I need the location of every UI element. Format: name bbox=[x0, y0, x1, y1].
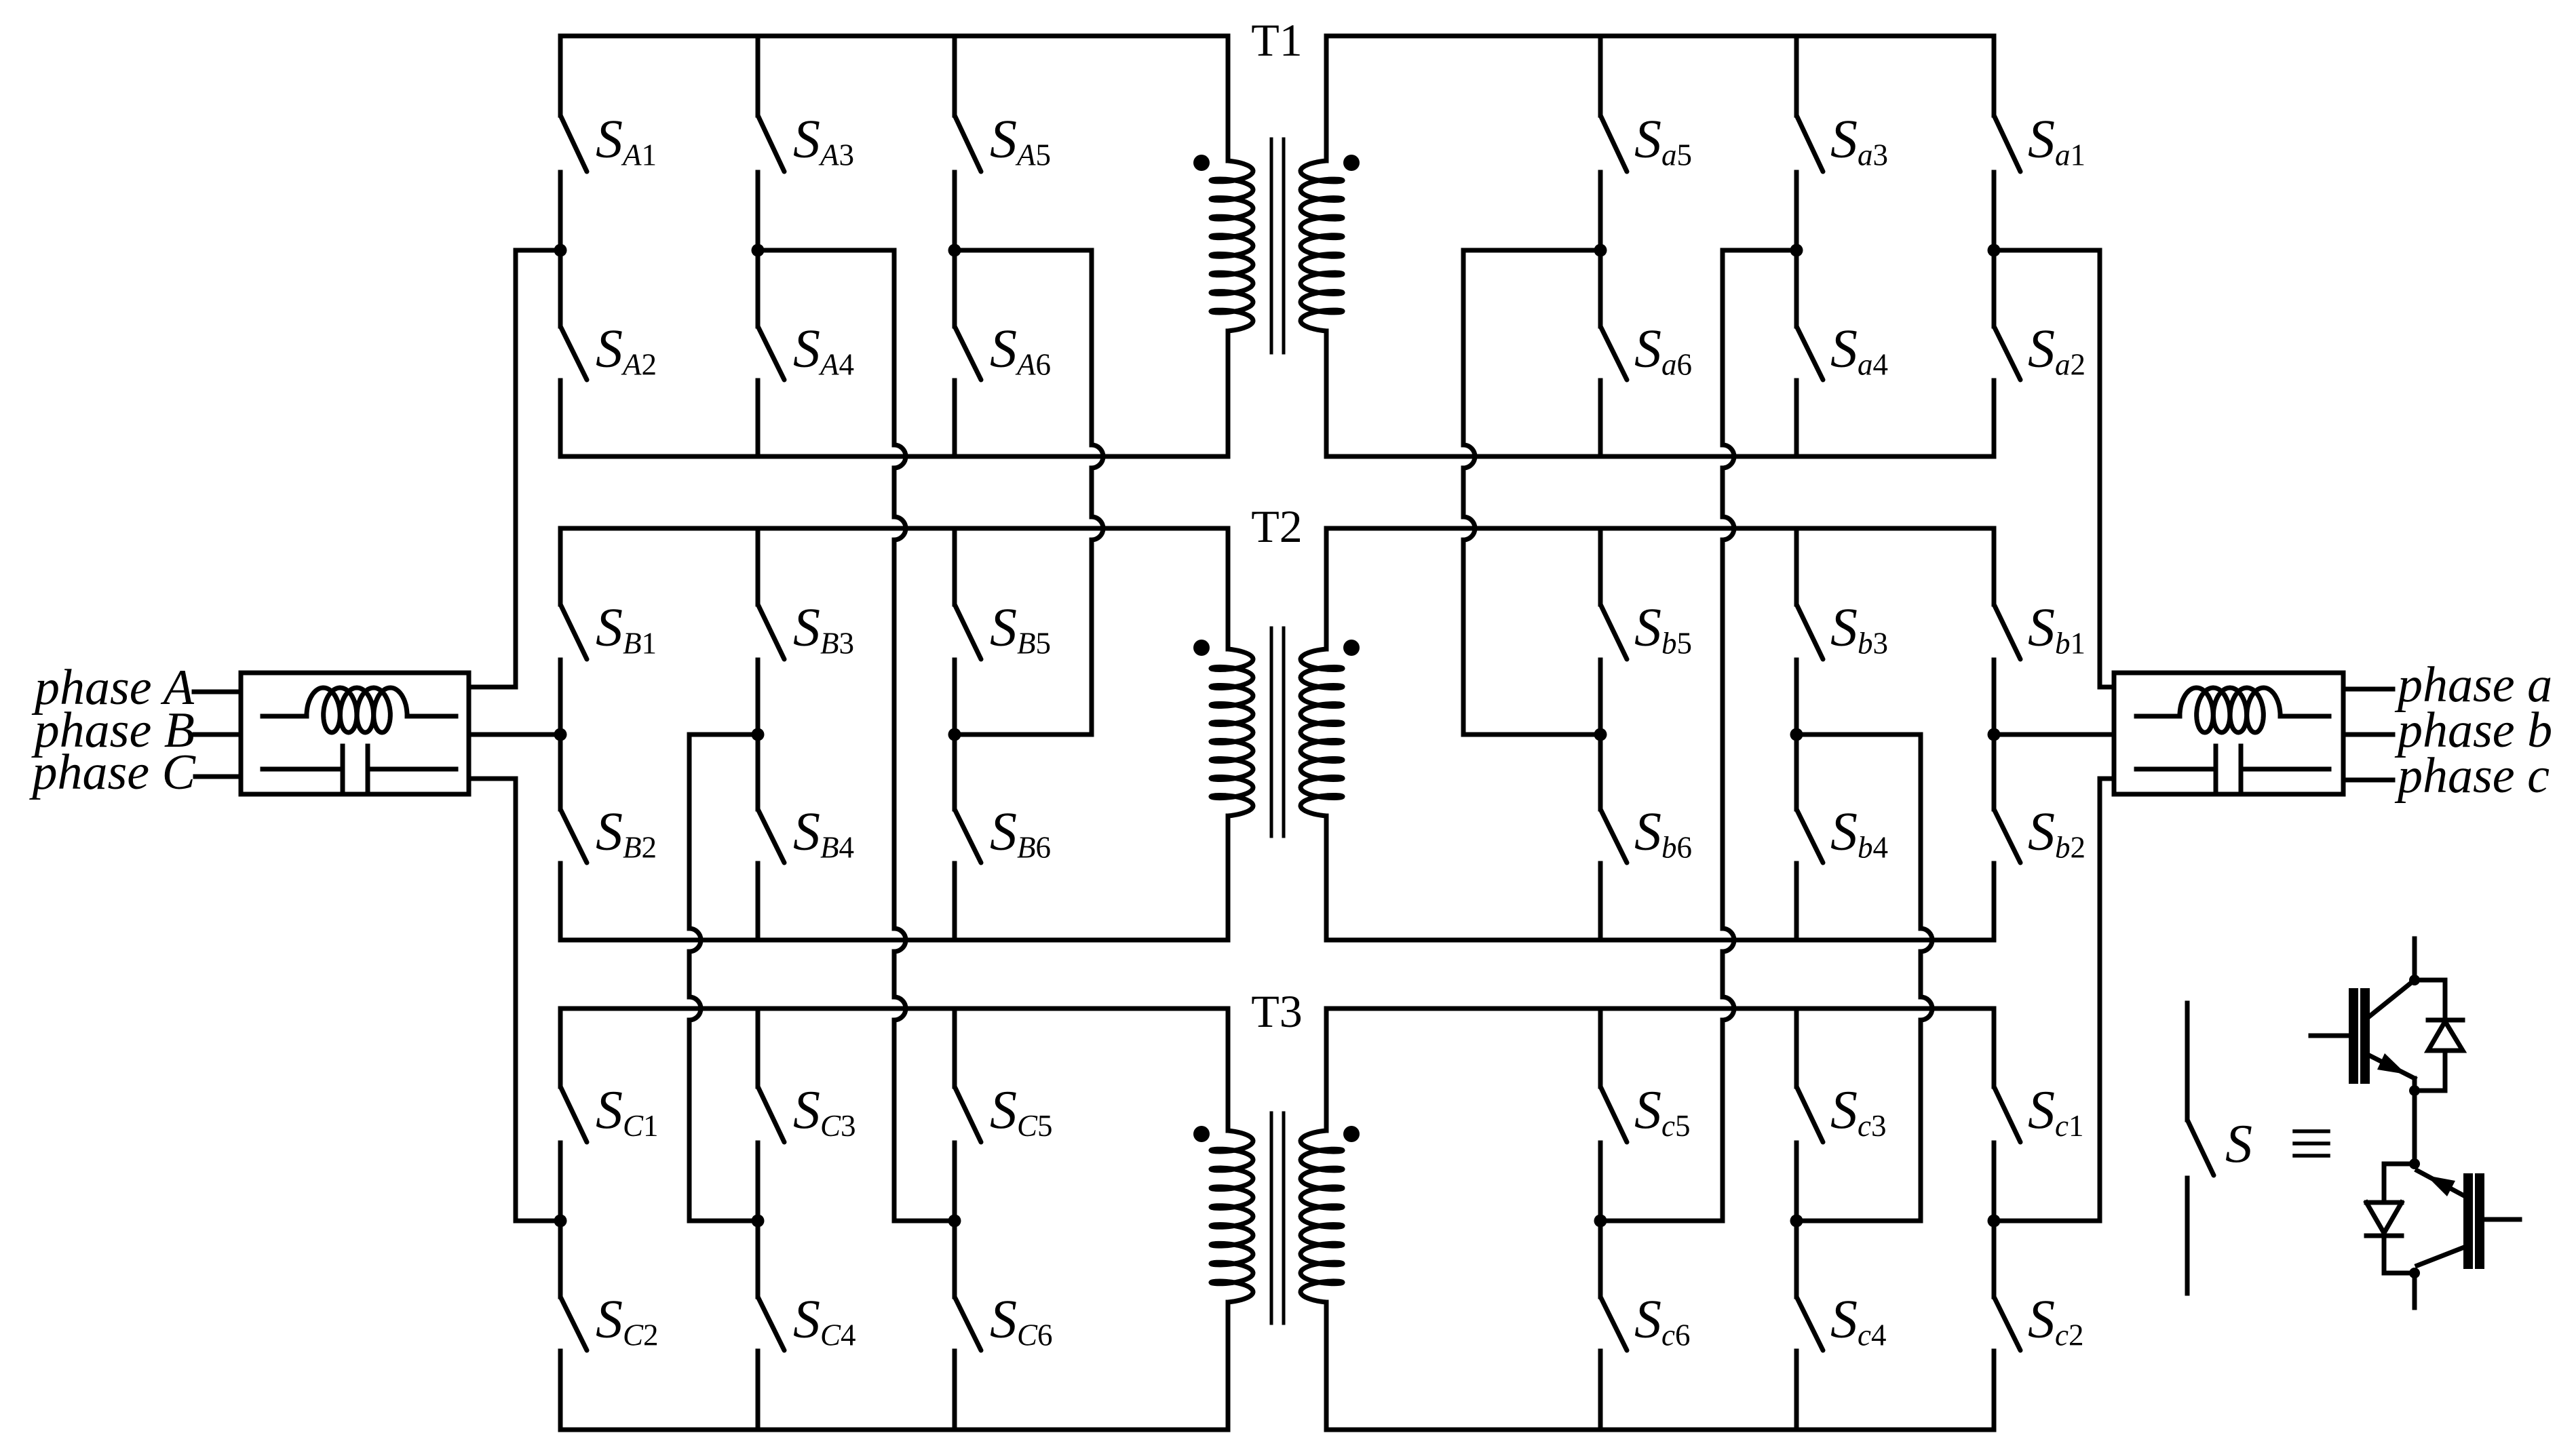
svg-text:Sc1: Sc1 bbox=[2028, 1080, 2083, 1143]
switch S_A2 bbox=[558, 250, 563, 326]
transformer T3 secondary polarity dot bbox=[1343, 1126, 1360, 1142]
svg-text:SA2: SA2 bbox=[596, 319, 657, 382]
node C-leg3 bbox=[948, 1215, 961, 1228]
wire phase a stub bbox=[2343, 687, 2393, 692]
wire bus b2-c2 bbox=[1796, 732, 1921, 737]
svg-text:SC4: SC4 bbox=[793, 1290, 856, 1352]
svg-text:Sc3: Sc3 bbox=[1830, 1080, 1886, 1143]
transformer T1 secondary winding bbox=[1324, 36, 1329, 161]
svg-text:SB4: SB4 bbox=[793, 802, 854, 865]
transistor Q2 (lower IGBT) bbox=[2463, 1178, 2473, 1264]
transformer T1 primary polarity dot bbox=[1193, 155, 1210, 171]
node A-leg2 bbox=[752, 244, 765, 257]
node b-leg1 bbox=[1988, 728, 2001, 741]
switch S_C6 bbox=[953, 1221, 957, 1297]
svg-text:Sa2: Sa2 bbox=[2028, 319, 2085, 382]
switch S_C2 bbox=[558, 1221, 563, 1297]
svg-text:Sc6: Sc6 bbox=[1634, 1290, 1690, 1352]
switch S_a3 bbox=[1794, 36, 1799, 115]
svg-text:Sb2: Sb2 bbox=[2028, 802, 2085, 865]
wire phase B link bbox=[469, 732, 560, 737]
svg-text:SC3: SC3 bbox=[793, 1080, 856, 1143]
wire C top rail left bbox=[560, 1006, 1228, 1011]
node C-leg2 bbox=[752, 1215, 765, 1228]
svg-text:SA1: SA1 bbox=[596, 110, 657, 172]
switch S_a6 bbox=[1598, 250, 1603, 326]
Q1 emitter arrow bbox=[2377, 1053, 2406, 1074]
node A-leg3 bbox=[948, 244, 961, 257]
switch S_C5 bbox=[953, 1009, 957, 1087]
svg-text:Sb3: Sb3 bbox=[1830, 598, 1888, 661]
wire bottom rail left bbox=[560, 1428, 1228, 1432]
svg-text:Sb4: Sb4 bbox=[1830, 802, 1888, 865]
wire b top rail right bbox=[1326, 526, 1994, 531]
svg-text:T1: T1 bbox=[1251, 14, 1303, 66]
svg-text:phase c: phase c bbox=[2394, 748, 2550, 804]
svg-text:Sc2: Sc2 bbox=[2028, 1290, 2083, 1352]
switch S_c2 bbox=[1992, 1221, 1997, 1297]
switch S_A1 bbox=[558, 36, 563, 115]
svg-text:Sb6: Sb6 bbox=[1634, 802, 1692, 865]
transformer T1 primary winding bbox=[1226, 36, 1231, 161]
wire phase A bus bbox=[516, 248, 560, 253]
svg-text:T3: T3 bbox=[1251, 985, 1303, 1037]
node a-leg1 bbox=[1988, 244, 2001, 257]
svg-text:Sc4: Sc4 bbox=[1830, 1290, 1886, 1352]
svg-text:SC6: SC6 bbox=[990, 1290, 1053, 1352]
svg-text:SA5: SA5 bbox=[990, 110, 1051, 172]
svg-text:Sc5: Sc5 bbox=[1634, 1080, 1690, 1143]
legend top lead bbox=[2412, 939, 2417, 980]
input filter box bbox=[241, 673, 469, 794]
node B-leg2 bbox=[752, 728, 765, 741]
output filter box bbox=[2114, 673, 2343, 794]
svg-text:SB6: SB6 bbox=[990, 802, 1051, 865]
svg-text:phase C: phase C bbox=[29, 745, 197, 800]
transformer T3 core bbox=[1270, 1113, 1273, 1323]
switch S_b6 bbox=[1598, 735, 1603, 809]
transformer T1 secondary polarity dot bbox=[1343, 155, 1360, 171]
node c-leg2 bbox=[1790, 1215, 1803, 1228]
switch S_a4 bbox=[1794, 250, 1799, 326]
switch S_B4 bbox=[756, 735, 761, 809]
wire phase C stub bbox=[195, 775, 241, 779]
node B-leg1 bbox=[554, 728, 567, 741]
diode D1 bbox=[2415, 978, 2445, 983]
transformer T2 primary polarity dot bbox=[1193, 640, 1210, 656]
switch S_c3 bbox=[1794, 1009, 1799, 1087]
wire phase A stub bbox=[194, 690, 241, 694]
switch S_A4 bbox=[756, 250, 761, 326]
switch S_a5 bbox=[1598, 36, 1603, 115]
switch S_a2 bbox=[1992, 250, 1997, 326]
switch S_B2 bbox=[558, 735, 563, 809]
switch S_c6 bbox=[1598, 1221, 1603, 1297]
svg-text:Sa4: Sa4 bbox=[1830, 319, 1888, 382]
node a-leg3 bbox=[1594, 244, 1607, 257]
diode D2 bbox=[2384, 1162, 2415, 1167]
switch S_C1 bbox=[558, 1009, 563, 1087]
node legend top bbox=[2409, 975, 2420, 985]
transistor Q1 (upper IGBT) bbox=[2349, 993, 2358, 1079]
svg-text:SB5: SB5 bbox=[990, 598, 1051, 661]
switch S_A6 bbox=[953, 250, 957, 326]
node c-leg3 bbox=[1594, 1215, 1607, 1228]
svg-text:SB2: SB2 bbox=[596, 802, 657, 865]
wire phase a bus bbox=[1994, 248, 2100, 253]
switch S_A3 bbox=[756, 36, 761, 115]
svg-text:SB1: SB1 bbox=[596, 598, 657, 661]
node legend mid-upper bbox=[2409, 1085, 2420, 1096]
switch S_b5 bbox=[1598, 528, 1603, 604]
svg-text:T2: T2 bbox=[1251, 501, 1303, 552]
switch S_c4 bbox=[1794, 1221, 1799, 1297]
wire b bottom rail right bbox=[1326, 938, 1994, 943]
wire a bottom rail right bbox=[1326, 454, 1994, 459]
wire phase b stub bbox=[2343, 732, 2393, 737]
transformer T2 primary winding bbox=[1226, 528, 1231, 649]
switch S_b2 bbox=[1992, 735, 1997, 809]
node b-leg3 bbox=[1594, 728, 1607, 741]
switch S_a1 bbox=[1992, 36, 1997, 115]
node C-leg1 bbox=[554, 1215, 567, 1228]
switch S_b4 bbox=[1794, 735, 1799, 809]
Q2 emitter arrow bbox=[2426, 1175, 2455, 1196]
wire B bottom rail left bbox=[560, 938, 1228, 943]
wire legend mid bbox=[2412, 1078, 2417, 1164]
svg-text:SC2: SC2 bbox=[596, 1290, 659, 1352]
svg-text:SA4: SA4 bbox=[793, 319, 854, 382]
switch S_b3 bbox=[1794, 528, 1799, 604]
transformer T1 core bbox=[1270, 139, 1273, 353]
wire bus a3-b3 bbox=[1463, 248, 1600, 253]
node a-leg2 bbox=[1790, 244, 1803, 257]
wire top rail left bbox=[560, 34, 1228, 39]
wire bus A3-B3 bbox=[955, 248, 1092, 253]
wire c top rail right bbox=[1326, 1006, 1994, 1011]
node legend bottom bbox=[2409, 1268, 2420, 1278]
node b-leg2 bbox=[1790, 728, 1803, 741]
wire top rail right bbox=[1326, 34, 1994, 39]
switch S_B1 bbox=[558, 528, 563, 604]
svg-text:Sb5: Sb5 bbox=[1634, 598, 1692, 661]
transformer T3 primary winding bbox=[1226, 1009, 1231, 1131]
transformer T3 secondary winding bbox=[1324, 1009, 1329, 1131]
switch S_C3 bbox=[756, 1009, 761, 1087]
svg-text:Sa6: Sa6 bbox=[1634, 319, 1692, 382]
legend bottom lead bbox=[2412, 1273, 2417, 1308]
svg-text:SA6: SA6 bbox=[990, 319, 1051, 382]
wire bus a2-c3 bbox=[1723, 248, 1796, 253]
wire A bottom rail left bbox=[560, 454, 1228, 459]
switch S_A5 bbox=[953, 36, 957, 115]
transformer T2 secondary winding bbox=[1324, 528, 1329, 649]
svg-text:SC5: SC5 bbox=[990, 1080, 1053, 1143]
svg-text:SA3: SA3 bbox=[793, 110, 854, 172]
node B-leg3 bbox=[948, 728, 961, 741]
wire phase c stub bbox=[2343, 778, 2393, 783]
switch S_c5 bbox=[1598, 1009, 1603, 1087]
wire bottom rail right bbox=[1326, 1428, 1994, 1432]
node A-leg1 bbox=[554, 244, 567, 257]
switch S_C4 bbox=[756, 1221, 761, 1297]
switch S_c1 bbox=[1992, 1009, 1997, 1087]
switch S_B5 bbox=[953, 528, 957, 604]
input filter capacitor bbox=[263, 767, 343, 772]
switch S_B6 bbox=[953, 735, 957, 809]
output filter inductor bbox=[2136, 714, 2180, 719]
wire phase b link bbox=[1994, 732, 2114, 737]
switch S_b1 bbox=[1992, 528, 1997, 604]
svg-text:S: S bbox=[2225, 1114, 2252, 1174]
switch S_B3 bbox=[756, 528, 761, 604]
transformer T2 secondary polarity dot bbox=[1343, 640, 1360, 656]
node legend mid-lower bbox=[2409, 1158, 2420, 1169]
legend switch S bbox=[2185, 1003, 2190, 1120]
input filter inductor bbox=[263, 714, 307, 719]
output filter capacitor bbox=[2136, 767, 2216, 772]
transformer T2 core bbox=[1270, 628, 1273, 836]
svg-text:Sa5: Sa5 bbox=[1634, 110, 1692, 172]
equiv sign bbox=[2294, 1129, 2328, 1133]
svg-text:SB3: SB3 bbox=[793, 598, 854, 661]
svg-text:Sa1: Sa1 bbox=[2028, 110, 2085, 172]
wire phase c bus bbox=[2100, 777, 2114, 781]
wire phase C bus bbox=[469, 777, 516, 781]
wire B top rail left bbox=[560, 526, 1228, 531]
wire phase B stub bbox=[195, 732, 241, 737]
wire bus B2-C2 bbox=[689, 732, 758, 737]
svg-text:Sb1: Sb1 bbox=[2028, 598, 2085, 661]
wire bus A2-C3 bbox=[758, 248, 894, 253]
svg-text:Sa3: Sa3 bbox=[1830, 110, 1888, 172]
svg-text:SC1: SC1 bbox=[596, 1080, 659, 1143]
node c-leg1 bbox=[1988, 1215, 2001, 1228]
transformer T3 primary polarity dot bbox=[1193, 1126, 1210, 1142]
